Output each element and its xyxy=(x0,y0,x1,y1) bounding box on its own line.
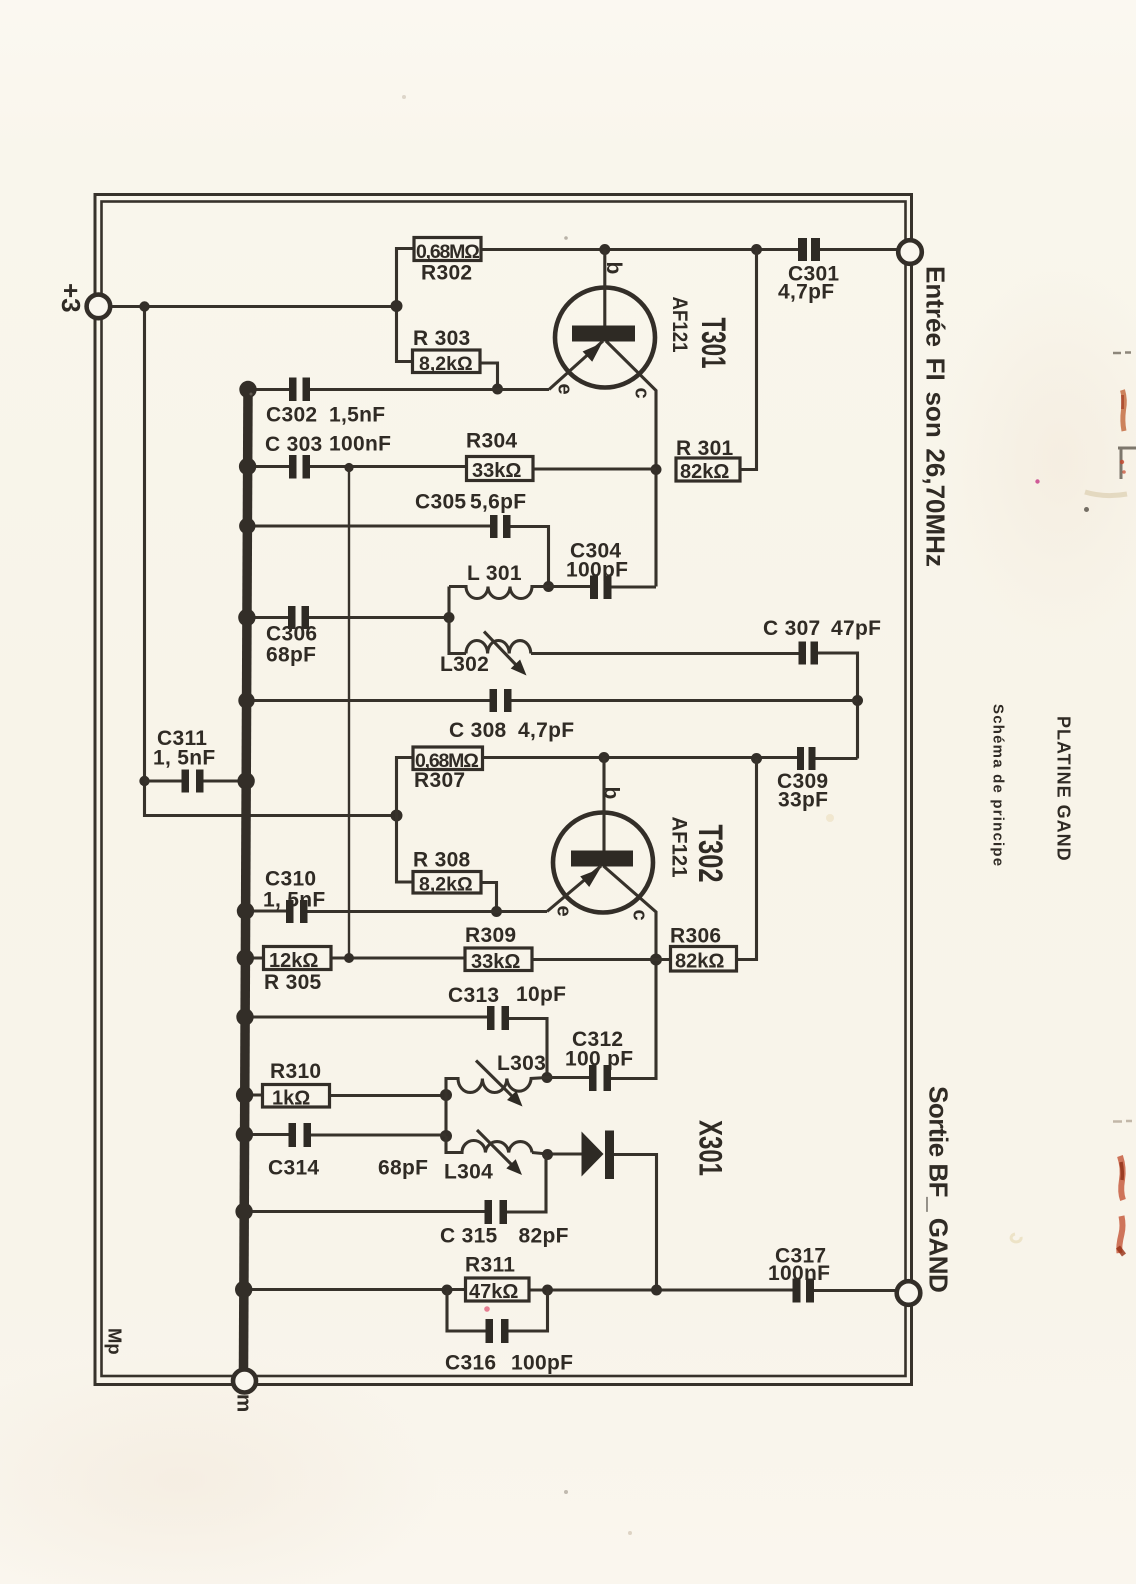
junction +3 rail/R302-R303 vertical xyxy=(391,300,403,312)
svg-text:4,7pF: 4,7pF xyxy=(778,281,834,304)
wire left vertical from +3 to C311 row then to R307 vertical xyxy=(145,307,397,816)
svg-text:Entrée FI son 26,70MHz: Entrée FI son 26,70MHz xyxy=(921,266,951,567)
capacitor C316 100pF xyxy=(445,1319,573,1375)
wire R301 right vertical xyxy=(740,250,757,470)
terminal Entree FI xyxy=(898,240,922,264)
junction C314/L304 xyxy=(440,1130,452,1142)
wire thin vertical C303 to R305 xyxy=(348,468,350,959)
wire C303 row to R304 xyxy=(247,467,656,470)
junction collector/R301 xyxy=(651,464,662,475)
svg-text:T302: T302 xyxy=(691,825,729,883)
terminal m (masse) xyxy=(233,1370,257,1413)
junction bus/C305 xyxy=(239,518,255,534)
svg-text:X301: X301 xyxy=(693,1120,729,1176)
wire R308 right to emitter row T302 xyxy=(481,883,497,912)
svg-text:1kΩ: 1kΩ xyxy=(272,1088,310,1110)
capacitor C317 100nF xyxy=(768,1245,830,1303)
svg-text:33kΩ: 33kΩ xyxy=(471,951,520,973)
svg-text:L302: L302 xyxy=(440,653,489,676)
svg-text:47pF: 47pF xyxy=(831,617,881,640)
capacitor C306 68pF xyxy=(266,606,317,667)
svg-text:R310: R310 xyxy=(270,1060,321,1083)
wire C307 right corner vertical xyxy=(818,653,858,759)
wire R305 R309 R306 row xyxy=(245,759,756,960)
svg-text:4,7pF: 4,7pF xyxy=(518,719,574,742)
svg-text:e: e xyxy=(553,906,575,917)
wire L303-L304 vertical xyxy=(444,1095,447,1136)
junction L301-C304-C305 node xyxy=(543,581,554,592)
wire C301 to Entree terminal xyxy=(820,248,897,251)
junction bus/C308 xyxy=(238,692,254,708)
resistor R305 12k xyxy=(264,947,332,995)
junction C313-C312-L303 node xyxy=(542,1072,553,1083)
svg-text:8,2kΩ: 8,2kΩ xyxy=(419,874,473,896)
svg-text:L304: L304 xyxy=(444,1161,493,1184)
capacitor C311 1,5nF xyxy=(153,727,215,793)
svg-text:Schéma de principe: Schéma de principe xyxy=(990,704,1007,867)
junction +3/left-vertical xyxy=(139,301,149,311)
wire C304 row xyxy=(549,585,657,589)
junction bus/R305 xyxy=(237,949,254,966)
junction bus/C306 xyxy=(238,609,255,626)
svg-text:C 315: C 315 xyxy=(440,1225,498,1248)
capacitor C308 4,7pF xyxy=(449,689,574,742)
svg-text:Mp: Mp xyxy=(105,1328,126,1355)
capacitor C314 68pF xyxy=(268,1123,428,1180)
wire C316 loop xyxy=(447,1290,548,1331)
svg-text:R 308: R 308 xyxy=(413,849,471,872)
transistor T302 AF121 xyxy=(547,758,729,921)
junction R311 left/C316 xyxy=(442,1285,453,1296)
diode X301 xyxy=(582,1120,729,1179)
svg-text:R304: R304 xyxy=(466,430,517,453)
wire R310 row xyxy=(245,1093,446,1097)
svg-text:PLATINE GAND: PLATINE GAND xyxy=(1054,716,1074,862)
wire L302 left leg and output row to C307 xyxy=(449,618,799,654)
svg-text:R306: R306 xyxy=(670,925,721,948)
resistor R311 47k xyxy=(465,1254,529,1304)
svg-text:82kΩ: 82kΩ xyxy=(680,461,729,483)
wire C315 row xyxy=(244,1155,546,1213)
wire diode output vertical to R311 row xyxy=(614,1155,657,1291)
junction R307 row/R306 vertical xyxy=(751,753,762,764)
resistor R304 33k xyxy=(466,430,533,483)
svg-text:Sortie BF_ GAND: Sortie BF_ GAND xyxy=(924,1086,954,1292)
svg-text:10pF: 10pF xyxy=(516,983,566,1006)
svg-text:33kΩ: 33kΩ xyxy=(472,460,521,482)
svg-text:R307: R307 xyxy=(414,769,465,792)
svg-text:0,68MΩ: 0,68MΩ xyxy=(416,241,479,263)
wire L304 output to diode xyxy=(532,1153,582,1155)
junction bus/R310 xyxy=(236,1086,253,1103)
junction C303/thin vertical xyxy=(344,463,353,472)
junction top rail/R301 vertical xyxy=(751,244,762,255)
inductor L304 (variable) xyxy=(444,1130,532,1184)
wire collector T302 vertical to C312 xyxy=(604,866,657,1079)
wire C313 row xyxy=(245,1017,547,1078)
junction C308/C307 vertical xyxy=(852,695,863,706)
terminal Sortie BF xyxy=(897,1281,921,1305)
wire C312 row xyxy=(547,1076,589,1079)
junction R303/emitter row xyxy=(492,384,503,395)
junction bus/C310 xyxy=(237,902,254,919)
svg-text:R 305: R 305 xyxy=(264,971,322,994)
svg-text:R311: R311 xyxy=(465,1254,515,1277)
stains and scan marks (right margin) xyxy=(250,95,1136,1535)
resistor R301 82k xyxy=(676,437,740,483)
junction collector T302/R306 row xyxy=(650,954,662,966)
svg-text:R 303: R 303 xyxy=(413,327,471,350)
resistor R309 33k xyxy=(465,924,532,973)
wire collector T301 vertical to R301 and C304 xyxy=(606,341,656,587)
capacitor C301 4,7pF xyxy=(778,238,839,304)
svg-text:100nF: 100nF xyxy=(329,433,391,456)
svg-text:L303: L303 xyxy=(497,1052,546,1075)
wire top rail R302 to C301 xyxy=(481,248,798,251)
svg-text:b: b xyxy=(602,262,625,275)
capacitor C309 33pF xyxy=(777,747,828,812)
svg-text:68pF: 68pF xyxy=(266,644,316,667)
capacitor C304 100pF xyxy=(566,540,628,600)
svg-text:5,6pF: 5,6pF xyxy=(470,491,526,514)
wire R303 right to emitter row xyxy=(480,363,498,389)
junction C306/L301/L302 xyxy=(444,612,455,623)
wire C305 row xyxy=(247,526,548,587)
junction diode vertical/R311 row xyxy=(651,1285,662,1296)
svg-text:c: c xyxy=(629,910,651,921)
svg-text:12kΩ: 12kΩ xyxy=(269,950,318,972)
junction R308/emitter row xyxy=(491,906,502,917)
junction bus/C315 xyxy=(235,1203,252,1220)
svg-text:C305: C305 xyxy=(415,491,466,514)
inductor L302 (variable) xyxy=(440,632,531,677)
svg-text:L 301: L 301 xyxy=(467,562,522,585)
junction C311 left xyxy=(139,776,149,786)
svg-text:100pF: 100pF xyxy=(511,1352,573,1375)
svg-text:82pF: 82pF xyxy=(519,1225,569,1248)
svg-text:+3: +3 xyxy=(56,283,86,313)
svg-text:100pF: 100pF xyxy=(566,559,628,582)
wire emitter row T302 with C310 xyxy=(246,909,548,913)
wire L301 left leg xyxy=(447,587,450,618)
junction bus/C303 xyxy=(239,458,256,475)
junction bus/C314 xyxy=(236,1126,253,1143)
svg-text:C313: C313 xyxy=(448,984,499,1007)
svg-text:33pF: 33pF xyxy=(778,789,828,812)
junction R311 right/C316 xyxy=(542,1285,553,1296)
svg-text:1,5nF: 1,5nF xyxy=(329,404,385,427)
svg-text:AF121: AF121 xyxy=(668,817,691,878)
svg-text:R302: R302 xyxy=(421,262,472,285)
svg-text:C310: C310 xyxy=(265,868,316,891)
inductor L303 (variable) xyxy=(446,1052,547,1107)
capacitor C303 100nF xyxy=(265,433,391,479)
svg-text:C 307: C 307 xyxy=(763,617,821,640)
capacitor C315 82pF xyxy=(440,1200,569,1248)
svg-text:C302: C302 xyxy=(266,404,317,427)
capacitor C310 1,5nF xyxy=(263,868,325,924)
svg-text:C 303: C 303 xyxy=(265,433,323,456)
svg-text:C306: C306 xyxy=(266,623,317,646)
junction L304/C315 vertical xyxy=(542,1149,553,1160)
wire R307 row to C309 xyxy=(397,758,858,759)
svg-text:e: e xyxy=(554,384,576,395)
transistor T301 AF121 xyxy=(549,250,732,399)
svg-text:b: b xyxy=(600,787,623,800)
wire C306 row xyxy=(247,616,449,619)
capacitor C305 5,6pF xyxy=(415,491,526,539)
resistor R310 1k xyxy=(263,1060,330,1110)
junction bus/C302 xyxy=(239,381,256,398)
resistor R303 8,2k xyxy=(413,327,481,375)
svg-text:1, 5nF: 1, 5nF xyxy=(263,889,325,912)
wire ground bus xyxy=(244,390,249,1371)
svg-text:T301: T301 xyxy=(694,318,732,369)
wire emitter row T301 with C302 xyxy=(247,388,549,391)
capacitor C313 10pF xyxy=(448,983,566,1030)
junction left-wire/R307-R308 vertical xyxy=(391,810,403,822)
terminal +3 xyxy=(56,283,110,318)
junction bus/C313 xyxy=(236,1008,253,1025)
capacitor C312 100 pF xyxy=(565,1028,633,1091)
junction bus/R311 xyxy=(235,1281,252,1298)
svg-text:100 pF: 100 pF xyxy=(565,1048,633,1071)
resistor R302 0,68M xyxy=(414,238,481,285)
svg-text:C316: C316 xyxy=(445,1352,496,1375)
svg-text:C314: C314 xyxy=(268,1157,319,1180)
wire +3 rail xyxy=(110,305,397,308)
svg-text:1, 5nF: 1, 5nF xyxy=(153,747,215,770)
wire R307-R308 left vertical xyxy=(397,758,414,883)
resistor R306 82k xyxy=(670,925,737,973)
wire R302-R303 left vertical xyxy=(397,249,415,362)
svg-text:47kΩ: 47kΩ xyxy=(469,1281,518,1303)
svg-text:m: m xyxy=(233,1394,256,1412)
svg-text:R 301: R 301 xyxy=(676,437,734,460)
svg-text:R309: R309 xyxy=(465,924,516,947)
svg-text:C 308: C 308 xyxy=(449,719,507,742)
svg-text:8,2kΩ: 8,2kΩ xyxy=(419,353,473,375)
inductor L301 xyxy=(449,562,549,599)
wire C311 row xyxy=(145,779,247,782)
svg-text:82kΩ: 82kΩ xyxy=(675,951,724,973)
junction base T301 xyxy=(599,244,610,255)
svg-text:68pF: 68pF xyxy=(378,1157,428,1180)
wire C314 row xyxy=(244,1133,446,1137)
svg-text:100nF: 100nF xyxy=(768,1262,830,1285)
capacitor C302 1,5nF xyxy=(266,378,385,427)
resistor R307 0,68M xyxy=(413,747,483,792)
wire R311 row to C317 and Sortie xyxy=(244,1290,896,1291)
resistor R308 8,2k xyxy=(413,849,481,896)
wire C308 row xyxy=(247,699,858,702)
junction R310/L303 xyxy=(440,1089,452,1101)
junction bus/C311 xyxy=(237,772,254,789)
svg-text:c: c xyxy=(631,388,653,399)
svg-text:AF121: AF121 xyxy=(668,297,691,353)
junction base T302 xyxy=(599,752,610,763)
junction thin vertical/R305 row xyxy=(344,953,354,963)
capacitor C307 47pF xyxy=(763,617,881,665)
